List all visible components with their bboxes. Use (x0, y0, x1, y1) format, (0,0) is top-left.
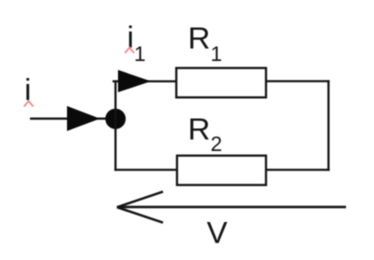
wire: right rail to R2 (266, 169, 330, 171)
voltage arrow V lower barb (117, 207, 163, 222)
wire: input lead (30, 117, 106, 119)
current arrow i (67, 106, 100, 131)
wire: node up to branch 1 (114, 80, 116, 119)
current arrow i1 (118, 70, 151, 92)
spellcheck caret under i (24, 101, 33, 107)
wire: bottom into R2 (114, 169, 177, 171)
svg-text:1: 1 (134, 43, 146, 66)
node: junction (105, 109, 125, 129)
wire: R1 to right rail (266, 80, 330, 82)
svg-text:V: V (207, 215, 228, 250)
svg-text:R: R (188, 111, 210, 146)
voltage arrow V shaft (117, 206, 346, 208)
voltage arrow V upper barb (117, 192, 163, 208)
wire: branch 1 horizontal into R1 (113, 80, 177, 82)
svg-text:1: 1 (211, 43, 223, 66)
spellcheck caret under i1 (125, 48, 134, 54)
resistor R1 (176, 68, 266, 97)
resistor R2 (177, 156, 266, 185)
wire: node down (114, 119, 116, 171)
svg-text:2: 2 (211, 133, 223, 156)
svg-text:R: R (188, 20, 210, 55)
wire: right rail (327, 80, 329, 171)
